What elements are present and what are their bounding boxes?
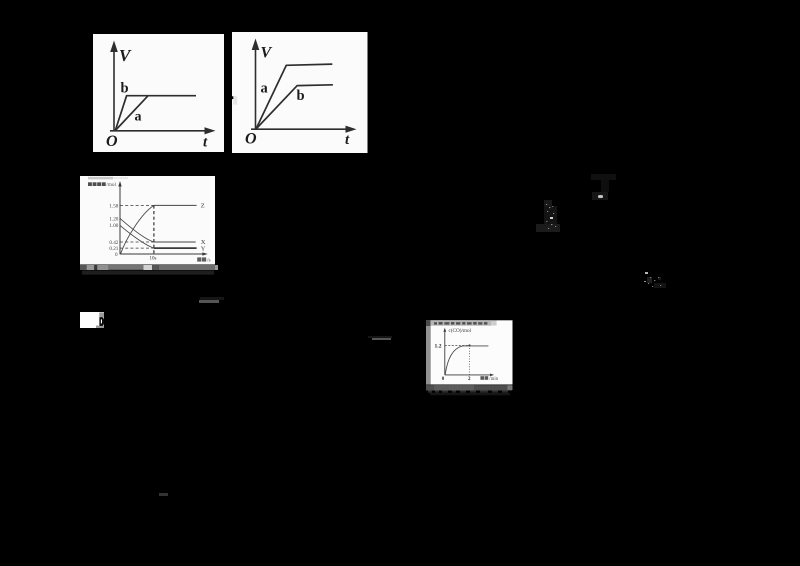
- t axis arrowhead: [205, 127, 216, 134]
- tiny light-gray bar near left edge: [233, 96, 237, 104]
- curve Y falling portion: [120, 225, 154, 248]
- svg-text:0.42: 0.42: [109, 239, 118, 245]
- svg-text:/s: /s: [207, 257, 211, 263]
- faint glyph cluster B vertical block: [601, 180, 609, 192]
- bottom band lighter segment: [434, 385, 474, 390]
- svg-text:a: a: [261, 80, 269, 96]
- faint glyph cluster B lower block: [592, 192, 608, 200]
- faint gray dash mark (answer blank) row 2: [372, 338, 391, 340]
- svg-text:0: 0: [441, 377, 444, 382]
- svg-text:b: b: [121, 81, 129, 97]
- faint glyph cluster A block 3: [536, 224, 560, 232]
- y axis label 物质的量/mol (CJK approximated): [88, 182, 106, 186]
- curve Z rising portion: [121, 205, 154, 253]
- curve a (slower rise joining plateau): [115, 96, 148, 131]
- CO concentration curve plateau: [462, 345, 488, 347]
- letter D (clipped at box edge): [99, 317, 104, 326]
- CO concentration curve rising: [445, 346, 462, 375]
- vertical dashed line at 10s: [153, 205, 155, 254]
- bottom band light tail: [507, 385, 512, 390]
- bottom band dark teeth: [428, 390, 508, 392]
- gray smudge band below panel 3: [78, 264, 218, 277]
- panel 4 white background: [430, 320, 512, 384]
- curve a (steep rise, high plateau): [256, 64, 332, 129]
- svg-text:0.21: 0.21: [109, 246, 118, 252]
- svg-text:1.20: 1.20: [109, 216, 118, 222]
- t axis arrowhead: [346, 125, 357, 132]
- left gray strip: [426, 326, 431, 385]
- curve b (steep rise then plateau): [115, 96, 196, 131]
- answer box gray corner top-right: [99, 312, 104, 317]
- t axis (horizontal): [251, 128, 350, 130]
- dark text remnant row: [82, 271, 214, 275]
- small white answer box with letter D: [80, 312, 104, 328]
- svg-text:/mol: /mol: [106, 181, 116, 187]
- t axis (horizontal): [110, 130, 209, 132]
- y axis arrowhead: [118, 181, 121, 187]
- x axis arrowhead: [202, 252, 208, 255]
- left gray strip (dark top): [426, 320, 431, 326]
- panel 1 background: [93, 34, 224, 152]
- faint glyph cluster C blob: [647, 277, 652, 283]
- band segment dark gray: [80, 265, 87, 270]
- curve X falling portion: [120, 218, 154, 242]
- svg-text:Z: Z: [201, 202, 205, 209]
- panel 2: right V-t graph (white box): [232, 32, 368, 153]
- band segment light tail: [215, 265, 220, 270]
- answer box gray strip bottom-right: [96, 326, 104, 329]
- svg-text:O: O: [245, 130, 257, 147]
- x axis: [120, 253, 204, 255]
- faint glyph cluster C dashes: [658, 277, 661, 280]
- faint glyph cluster C dot: [644, 281, 646, 282]
- dashed level line at 1.58: [120, 204, 154, 206]
- y axis: [119, 184, 121, 254]
- curve X plateau: [154, 241, 196, 243]
- svg-text:X: X: [201, 239, 206, 246]
- faint glyph cluster A speckles: [540, 198, 564, 234]
- svg-text:Y: Y: [201, 245, 206, 252]
- panel 3: amount-of-substance vs time equilibrium graph (white box): [80, 176, 215, 265]
- x axis arrowhead: [490, 373, 494, 376]
- band segment dark gray 2: [152, 265, 159, 270]
- point marker at (2,1.2): [468, 344, 470, 346]
- band segment dark gap: [94, 265, 97, 270]
- top gray band: [430, 320, 490, 325]
- V axis arrowhead: [110, 41, 118, 53]
- svg-text:1.00: 1.00: [109, 223, 118, 229]
- x axis label 时间/min (CJK approximated): [480, 376, 488, 380]
- faint glyph cluster B bright dash: [598, 195, 603, 198]
- faint glyph cluster C speckles: [642, 268, 666, 292]
- svg-text:/min: /min: [489, 377, 498, 382]
- curve Z plateau: [154, 204, 197, 206]
- panel 1: left V-t graph (white box): [93, 34, 224, 152]
- faint gray dash mark (answer blank) row 1: [199, 300, 219, 303]
- svg-text:V: V: [119, 46, 132, 65]
- top band light block: [491, 320, 497, 325]
- faint glyph cluster A block 1: [544, 200, 552, 206]
- garbled dark text marks in top band: [434, 322, 487, 325]
- bottom faint smudge row: [430, 392, 510, 395]
- band segment light gray: [87, 265, 95, 270]
- curve Y plateau (thicker): [154, 247, 197, 249]
- y axis arrowhead: [443, 328, 446, 332]
- dashed level line at 1.2: [444, 344, 469, 346]
- faint glyph cluster B horizontal block: [591, 174, 616, 180]
- svg-text:c(CO)/mol: c(CO)/mol: [448, 327, 471, 334]
- panel 3 background: [80, 176, 215, 265]
- band segment near-white: [143, 265, 152, 270]
- bottom gray band: [426, 385, 512, 390]
- dotted vertical line at t=2: [468, 345, 470, 374]
- V axis arrowhead: [252, 38, 260, 50]
- svg-text:10s: 10s: [150, 256, 157, 261]
- panel 2 background: [232, 32, 368, 153]
- x axis: [444, 374, 491, 376]
- band segment medium gray: [109, 265, 144, 270]
- V axis (vertical): [255, 44, 257, 130]
- band segment light gray 2: [97, 265, 109, 270]
- curve b (slower rise, low plateau): [256, 84, 333, 128]
- faint gray dash mark (answer blank) row 2 dark bar: [368, 336, 392, 338]
- svg-text:V: V: [261, 44, 273, 61]
- svg-text:1.58: 1.58: [109, 203, 118, 209]
- dashed level line at 0.42: [120, 241, 154, 243]
- x axis label 时间/s (CJK approximated): [197, 257, 206, 261]
- top-left gray smudge: [88, 176, 113, 179]
- svg-text:2: 2: [468, 377, 471, 382]
- svg-text:0: 0: [115, 251, 118, 257]
- faint gray dash mark (answer blank) row 1 dark bar: [200, 297, 224, 300]
- faint glyph cluster A white dash: [550, 217, 553, 219]
- answer box white part: [80, 312, 104, 328]
- faint glyph cluster C white dash: [645, 272, 648, 274]
- tiny black notch on left edge: [232, 96, 234, 99]
- faint gray dash mark row 3: [159, 493, 168, 496]
- faint glyph cluster A block 2: [544, 206, 557, 224]
- band segment medium gray right: [159, 265, 215, 270]
- V axis (vertical): [113, 46, 115, 131]
- svg-text:b: b: [297, 88, 305, 104]
- svg-text:1.2: 1.2: [434, 343, 441, 349]
- svg-text:O: O: [106, 133, 118, 150]
- panel 4: c(CO) vs time graph with gray frame strips: [426, 320, 513, 398]
- dashed level line at 0.21: [120, 247, 154, 249]
- faint glyph cluster C lower patch: [654, 283, 666, 288]
- y axis: [443, 330, 445, 374]
- svg-text:a: a: [135, 110, 142, 125]
